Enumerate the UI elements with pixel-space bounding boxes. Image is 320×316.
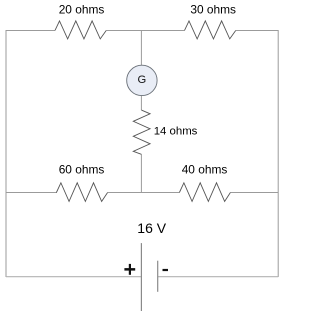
wire: middle rail right segment — [230, 192, 278, 194]
wire: bottom rail left of battery — [6, 276, 141, 278]
resistor R5 14 ohms (vertical) — [133, 110, 150, 154]
minus sign — [163, 269, 169, 271]
svg-text:G: G — [137, 74, 146, 86]
resistor R2 30 ohms — [185, 21, 236, 39]
wire: center vertical from top rail to galvanometer — [140, 30, 142, 65]
wire: top rail left segment — [6, 29, 55, 31]
svg-text:16 V: 16 V — [137, 220, 166, 236]
battery positive long plate — [140, 243, 142, 311]
resistor R1 20 ohms — [55, 21, 106, 39]
galvanometer G circle — [127, 65, 157, 95]
wire: middle rail center segment — [108, 192, 180, 194]
wire: left vertical — [5, 30, 7, 277]
wire: top rail middle segment — [106, 29, 184, 31]
wire: R14 to middle rail — [140, 154, 142, 192]
svg-text:30 ohms: 30 ohms — [190, 3, 236, 17]
wire: galvanometer to R14 — [140, 95, 142, 110]
plus sign — [124, 268, 135, 271]
resistor R4 40 ohms — [179, 183, 230, 202]
svg-text:14 ohms: 14 ohms — [154, 126, 198, 138]
svg-text:20 ohms: 20 ohms — [59, 3, 105, 17]
resistor R3 60 ohms — [56, 183, 107, 202]
wire: right vertical — [277, 30, 279, 277]
svg-text:40 ohms: 40 ohms — [182, 163, 228, 177]
wire: middle rail left segment — [6, 192, 57, 194]
wire: top rail right segment — [236, 29, 279, 31]
wire: bottom rail right of battery — [158, 276, 279, 278]
battery negative short plate — [157, 261, 159, 292]
svg-text:60 ohms: 60 ohms — [59, 163, 105, 177]
